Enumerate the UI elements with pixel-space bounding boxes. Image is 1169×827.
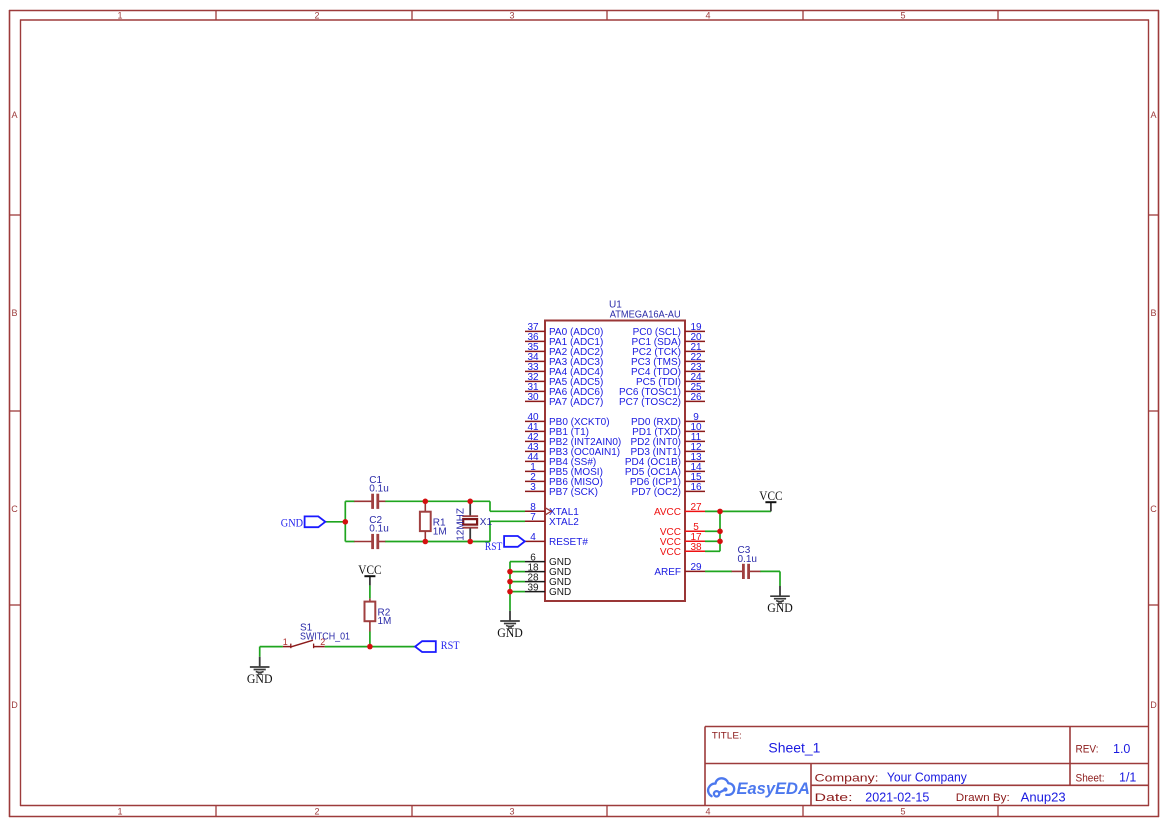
svg-text:4: 4 bbox=[705, 807, 710, 817]
svg-text:39: 39 bbox=[527, 582, 539, 593]
svg-text:B: B bbox=[11, 308, 17, 318]
svg-text:B: B bbox=[1150, 308, 1156, 318]
svg-text:PC7 (TOSC2): PC7 (TOSC2) bbox=[619, 397, 681, 408]
svg-text:4: 4 bbox=[530, 532, 536, 543]
svg-text:1: 1 bbox=[117, 11, 122, 21]
svg-text:EasyEDA: EasyEDA bbox=[737, 780, 810, 798]
svg-text:5: 5 bbox=[900, 807, 905, 817]
svg-text:PD7 (OC2): PD7 (OC2) bbox=[632, 487, 681, 498]
svg-text:Your Company: Your Company bbox=[887, 771, 968, 785]
svg-text:Drawn By:: Drawn By: bbox=[956, 792, 1010, 804]
svg-text:0.1u: 0.1u bbox=[369, 524, 388, 535]
svg-text:38: 38 bbox=[690, 542, 702, 553]
svg-text:12MHZ: 12MHZ bbox=[455, 508, 466, 541]
svg-text:1/1: 1/1 bbox=[1119, 771, 1136, 785]
svg-text:0.1u: 0.1u bbox=[738, 554, 757, 565]
svg-text:Date:: Date: bbox=[815, 792, 853, 804]
svg-text:AVCC: AVCC bbox=[654, 507, 681, 518]
svg-text:3: 3 bbox=[530, 482, 536, 493]
svg-text:REV:: REV: bbox=[1076, 744, 1099, 756]
svg-text:1: 1 bbox=[117, 807, 122, 817]
svg-text:VCC: VCC bbox=[660, 547, 681, 558]
svg-text:C: C bbox=[1150, 504, 1157, 514]
svg-text:GND: GND bbox=[281, 515, 304, 529]
svg-text:XTAL2: XTAL2 bbox=[549, 517, 579, 528]
svg-text:Sheet_1: Sheet_1 bbox=[768, 741, 820, 756]
svg-text:RST: RST bbox=[441, 640, 460, 652]
svg-text:GND: GND bbox=[497, 626, 523, 640]
svg-text:7: 7 bbox=[530, 512, 536, 523]
svg-text:GND: GND bbox=[247, 672, 273, 686]
svg-text:D: D bbox=[1150, 700, 1157, 710]
svg-text:29: 29 bbox=[690, 562, 702, 573]
svg-text:VCC: VCC bbox=[358, 563, 381, 577]
svg-text:GND: GND bbox=[549, 587, 571, 598]
svg-text:3: 3 bbox=[509, 11, 514, 21]
svg-text:RESET#: RESET# bbox=[549, 537, 588, 548]
svg-text:X1: X1 bbox=[480, 517, 493, 528]
svg-text:D: D bbox=[11, 700, 18, 710]
svg-text:26: 26 bbox=[690, 392, 702, 403]
svg-text:A: A bbox=[11, 110, 17, 120]
svg-text:3: 3 bbox=[509, 807, 514, 817]
svg-text:Anup23: Anup23 bbox=[1021, 791, 1066, 805]
svg-text:1M: 1M bbox=[378, 616, 392, 627]
svg-text:Company:: Company: bbox=[815, 772, 879, 784]
svg-text:5: 5 bbox=[900, 11, 905, 21]
svg-text:A: A bbox=[1150, 110, 1156, 120]
svg-text:1M: 1M bbox=[433, 526, 447, 537]
svg-text:16: 16 bbox=[690, 482, 702, 493]
svg-text:2: 2 bbox=[314, 807, 319, 817]
svg-text:1: 1 bbox=[283, 637, 288, 647]
svg-text:2: 2 bbox=[314, 11, 319, 21]
svg-text:AREF: AREF bbox=[654, 567, 681, 578]
svg-text:SWITCH_01: SWITCH_01 bbox=[300, 631, 350, 642]
svg-text:Sheet:: Sheet: bbox=[1076, 772, 1105, 784]
svg-text:2021-02-15: 2021-02-15 bbox=[865, 791, 929, 805]
svg-text:PB7 (SCK): PB7 (SCK) bbox=[549, 487, 598, 498]
svg-text:RST: RST bbox=[485, 541, 502, 553]
svg-text:VCC: VCC bbox=[759, 489, 782, 503]
svg-text:4: 4 bbox=[705, 11, 710, 21]
svg-text:0.1u: 0.1u bbox=[369, 484, 388, 495]
svg-text:GND: GND bbox=[767, 601, 793, 615]
svg-text:C: C bbox=[11, 504, 18, 514]
svg-text:TITLE:: TITLE: bbox=[712, 731, 742, 742]
svg-text:PA7 (ADC7): PA7 (ADC7) bbox=[549, 397, 603, 408]
svg-text:30: 30 bbox=[527, 392, 539, 403]
svg-text:27: 27 bbox=[690, 502, 702, 513]
svg-text:ATMEGA16A-AU: ATMEGA16A-AU bbox=[610, 310, 681, 321]
svg-text:1.0: 1.0 bbox=[1113, 742, 1130, 756]
